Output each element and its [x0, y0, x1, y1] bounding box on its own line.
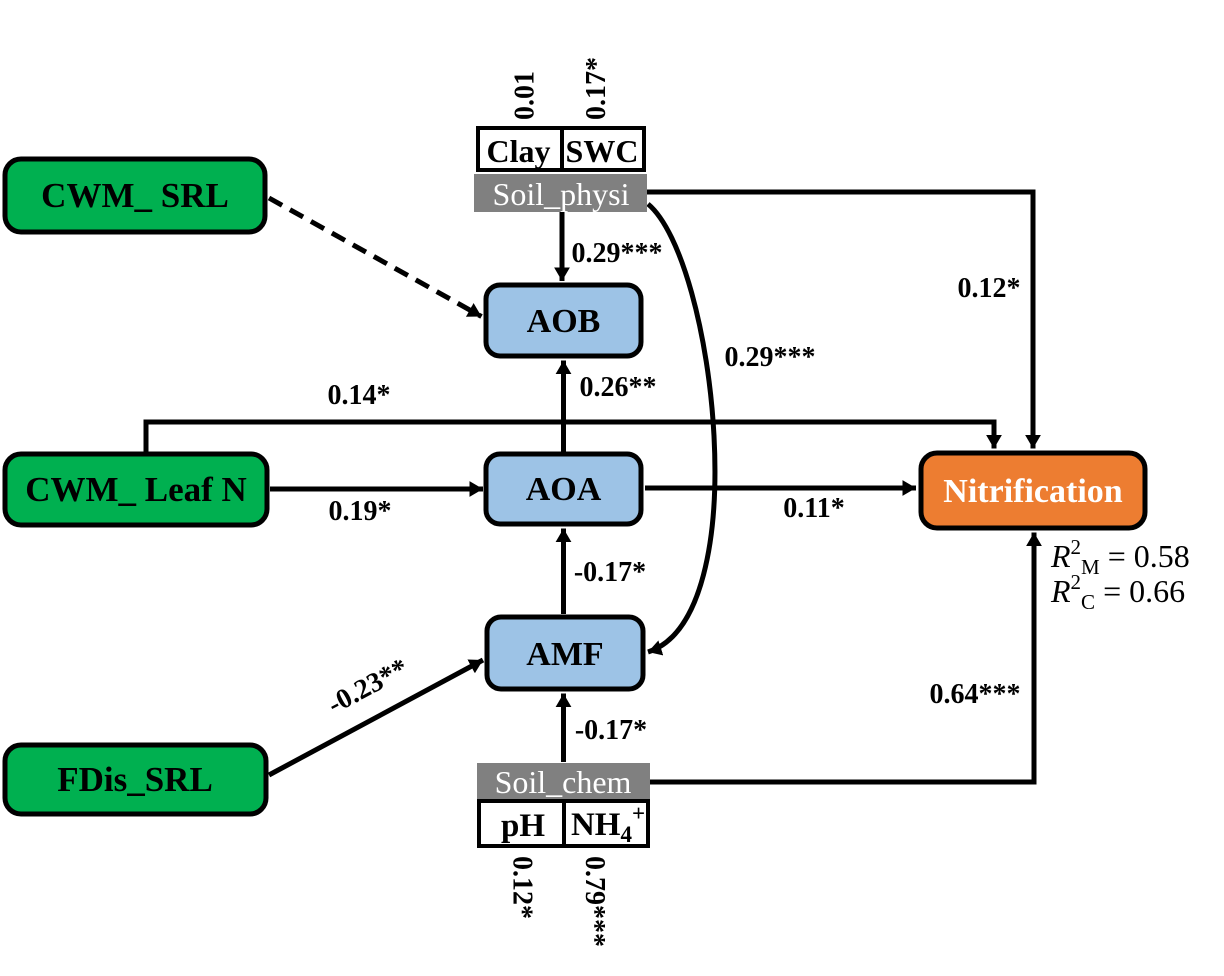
svg-text:0.17*: 0.17*	[581, 57, 612, 120]
svg-text:0.79***: 0.79***	[579, 856, 610, 947]
box CWM_Leaf N	[5, 454, 267, 525]
svg-text:-0.17*: -0.17*	[574, 557, 646, 588]
svg-text:SWC: SWC	[566, 133, 639, 169]
svg-text:0.12*: 0.12*	[958, 273, 1021, 304]
box Clay	[478, 128, 562, 170]
wire Soil_chem to Nitrification (0.64***)	[646, 533, 1034, 783]
wire Soil_physi to AOB (0.29***)	[560, 212, 565, 281]
wire CWM_SRL to AOB dashed	[269, 198, 482, 317]
svg-text:Clay: Clay	[487, 133, 551, 169]
svg-text:0.29***: 0.29***	[725, 342, 816, 373]
svg-text:0.29***: 0.29***	[572, 238, 663, 269]
box Soil_physi	[474, 174, 647, 212]
svg-text:0.01: 0.01	[510, 71, 541, 120]
svg-text:0.64***: 0.64***	[930, 679, 1021, 710]
svg-text:AMF: AMF	[526, 636, 603, 673]
wire Soil_chem to AMF (-0.17*)	[561, 694, 566, 763]
wire Soil_physi to AMF curved (0.29***)	[648, 204, 715, 652]
svg-text:CWM_ Leaf N: CWM_ Leaf N	[25, 470, 247, 509]
box FDis_SRL	[5, 745, 266, 814]
svg-text:0.11*: 0.11*	[783, 493, 844, 524]
svg-text:0.14*: 0.14*	[328, 380, 391, 411]
wire AOA to AOB (0.26**)	[561, 361, 566, 453]
svg-text:0.12*: 0.12*	[507, 856, 538, 919]
svg-text:CWM_ SRL: CWM_ SRL	[41, 176, 229, 215]
svg-text:Nitrification: Nitrification	[943, 473, 1122, 510]
box AOA	[486, 454, 641, 524]
box NH4+	[564, 801, 648, 847]
svg-text:AOB: AOB	[527, 303, 601, 340]
svg-text:-0.17*: -0.17*	[575, 715, 647, 746]
svg-text:Soil_chem: Soil_chem	[495, 764, 632, 800]
wire FDis_SRL to AMF (-0.23**)	[269, 660, 483, 775]
wire CWM_LeafN to Nitrification (0.14*)	[146, 422, 994, 452]
wire AMF to AOA (-0.17*)	[561, 529, 566, 615]
wire AOA to Nitrification (0.11*)	[645, 486, 916, 491]
svg-text:FDis_SRL: FDis_SRL	[57, 760, 213, 799]
svg-text:pH: pH	[501, 808, 545, 844]
box AMF	[487, 617, 643, 689]
svg-text:0.19*: 0.19*	[329, 496, 392, 527]
box Nitrification	[921, 453, 1145, 528]
box CWM_SRL	[5, 159, 265, 232]
box pH	[479, 801, 564, 846]
svg-text:Soil_physi: Soil_physi	[493, 176, 630, 212]
svg-text:AOA: AOA	[526, 471, 602, 508]
box AOB	[486, 285, 641, 356]
svg-text:R2C = 0.66: R2C = 0.66	[1050, 570, 1185, 614]
wire Soil_physi to Nitrification (0.12*)	[646, 192, 1033, 449]
box SWC	[562, 128, 644, 170]
box Soil_chem	[477, 763, 650, 800]
wire CWM_LeafN to AOA (0.19*)	[270, 487, 483, 492]
svg-text:0.26**: 0.26**	[580, 372, 657, 403]
